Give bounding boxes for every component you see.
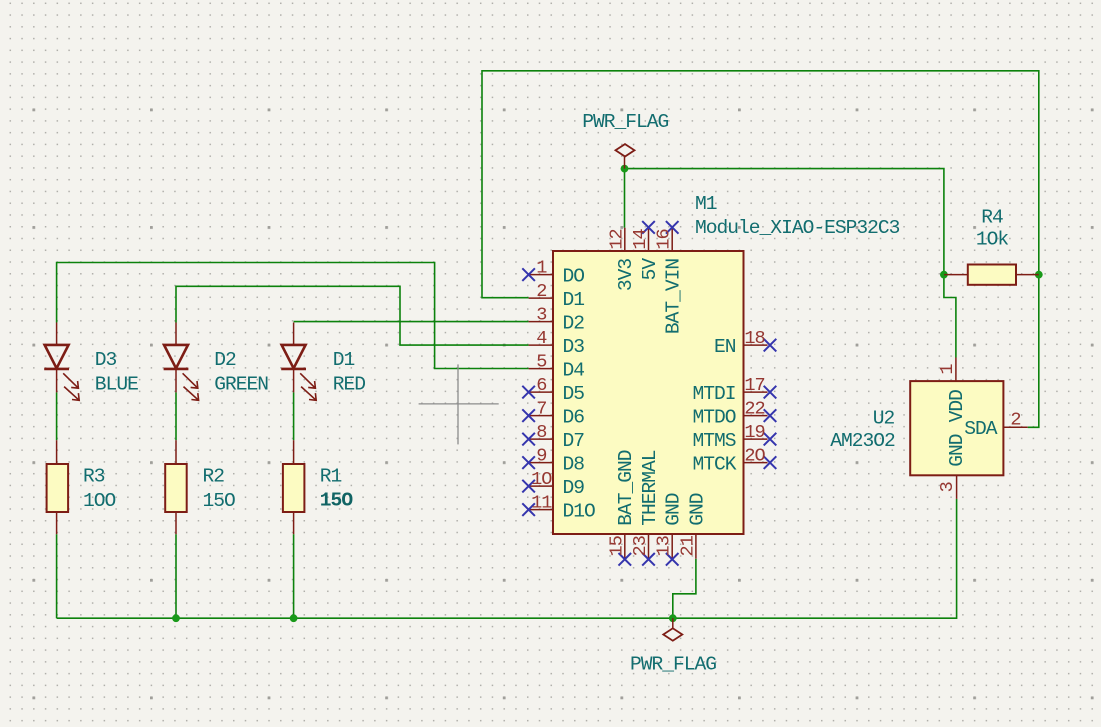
- svg-text:D2: D2: [214, 349, 236, 371]
- svg-text:12: 12: [606, 229, 627, 249]
- svg-text:6: 6: [536, 375, 546, 396]
- svg-text:D3: D3: [563, 336, 585, 358]
- svg-text:7: 7: [536, 398, 546, 419]
- svg-text:SDA: SDA: [964, 418, 998, 440]
- svg-text:16: 16: [654, 229, 675, 249]
- svg-text:U2: U2: [873, 407, 895, 429]
- svg-text:MTDO: MTDO: [692, 407, 735, 429]
- svg-text:GREEN: GREEN: [214, 374, 268, 396]
- svg-text:1: 1: [536, 257, 547, 278]
- svg-text:PWR_FLAG: PWR_FLAG: [630, 654, 716, 676]
- svg-text:3: 3: [937, 482, 958, 492]
- svg-text:13: 13: [654, 536, 675, 556]
- svg-text:D3: D3: [95, 349, 117, 371]
- svg-text:DO: DO: [563, 266, 585, 288]
- svg-text:9: 9: [536, 445, 546, 466]
- svg-text:BAT_VIN: BAT_VIN: [663, 259, 685, 335]
- svg-text:BLUE: BLUE: [95, 374, 138, 396]
- svg-text:15O: 15O: [320, 490, 354, 512]
- svg-text:2O: 2O: [744, 445, 765, 466]
- svg-text:2: 2: [1010, 409, 1020, 430]
- svg-text:RED: RED: [333, 374, 366, 396]
- svg-text:1O: 1O: [531, 469, 552, 490]
- svg-text:D1: D1: [333, 349, 355, 371]
- svg-text:R4: R4: [981, 207, 1003, 229]
- svg-text:R2: R2: [203, 466, 225, 488]
- svg-text:22: 22: [744, 398, 764, 419]
- svg-text:1: 1: [937, 364, 958, 375]
- svg-text:5V: 5V: [639, 258, 661, 281]
- svg-text:5: 5: [536, 351, 546, 372]
- svg-text:21: 21: [677, 535, 698, 556]
- svg-text:MTCK: MTCK: [692, 454, 736, 476]
- svg-text:D7: D7: [563, 430, 585, 452]
- svg-text:AM23O2: AM23O2: [830, 430, 895, 452]
- svg-text:15O: 15O: [203, 490, 236, 512]
- svg-text:Module_XIAO-ESP32C3: Module_XIAO-ESP32C3: [695, 217, 900, 239]
- svg-text:17: 17: [744, 375, 764, 396]
- svg-text:D9: D9: [563, 477, 585, 499]
- svg-text:11: 11: [531, 492, 552, 513]
- svg-text:19: 19: [744, 422, 764, 443]
- svg-text:R1: R1: [320, 466, 342, 488]
- svg-text:BAT_GND: BAT_GND: [615, 450, 637, 526]
- svg-text:THERMAL: THERMAL: [639, 450, 661, 526]
- svg-text:D4: D4: [563, 360, 585, 382]
- svg-text:MTDI: MTDI: [692, 383, 735, 405]
- svg-text:D1: D1: [563, 289, 585, 311]
- svg-text:23: 23: [630, 536, 651, 556]
- svg-text:D1O: D1O: [563, 501, 596, 523]
- svg-text:GND: GND: [663, 493, 685, 526]
- svg-text:3: 3: [536, 304, 546, 325]
- svg-text:18: 18: [744, 328, 764, 349]
- svg-text:3V3: 3V3: [615, 259, 637, 292]
- svg-text:1OO: 1OO: [83, 490, 116, 512]
- svg-text:D6: D6: [563, 407, 585, 429]
- svg-text:D8: D8: [563, 454, 585, 476]
- svg-text:D5: D5: [563, 383, 585, 405]
- svg-text:1Ok: 1Ok: [976, 229, 1009, 251]
- svg-text:M1: M1: [695, 193, 717, 215]
- svg-text:PWR_FLAG: PWR_FLAG: [582, 111, 668, 133]
- svg-text:GND: GND: [686, 493, 708, 526]
- svg-text:4: 4: [536, 328, 547, 349]
- svg-text:R3: R3: [83, 466, 105, 488]
- svg-text:2: 2: [536, 281, 546, 302]
- svg-text:8: 8: [536, 422, 546, 443]
- svg-text:14: 14: [630, 229, 651, 250]
- svg-text:EN: EN: [714, 336, 736, 358]
- svg-text:MTMS: MTMS: [692, 430, 735, 452]
- svg-text:D2: D2: [563, 313, 585, 335]
- svg-text:15: 15: [606, 536, 627, 556]
